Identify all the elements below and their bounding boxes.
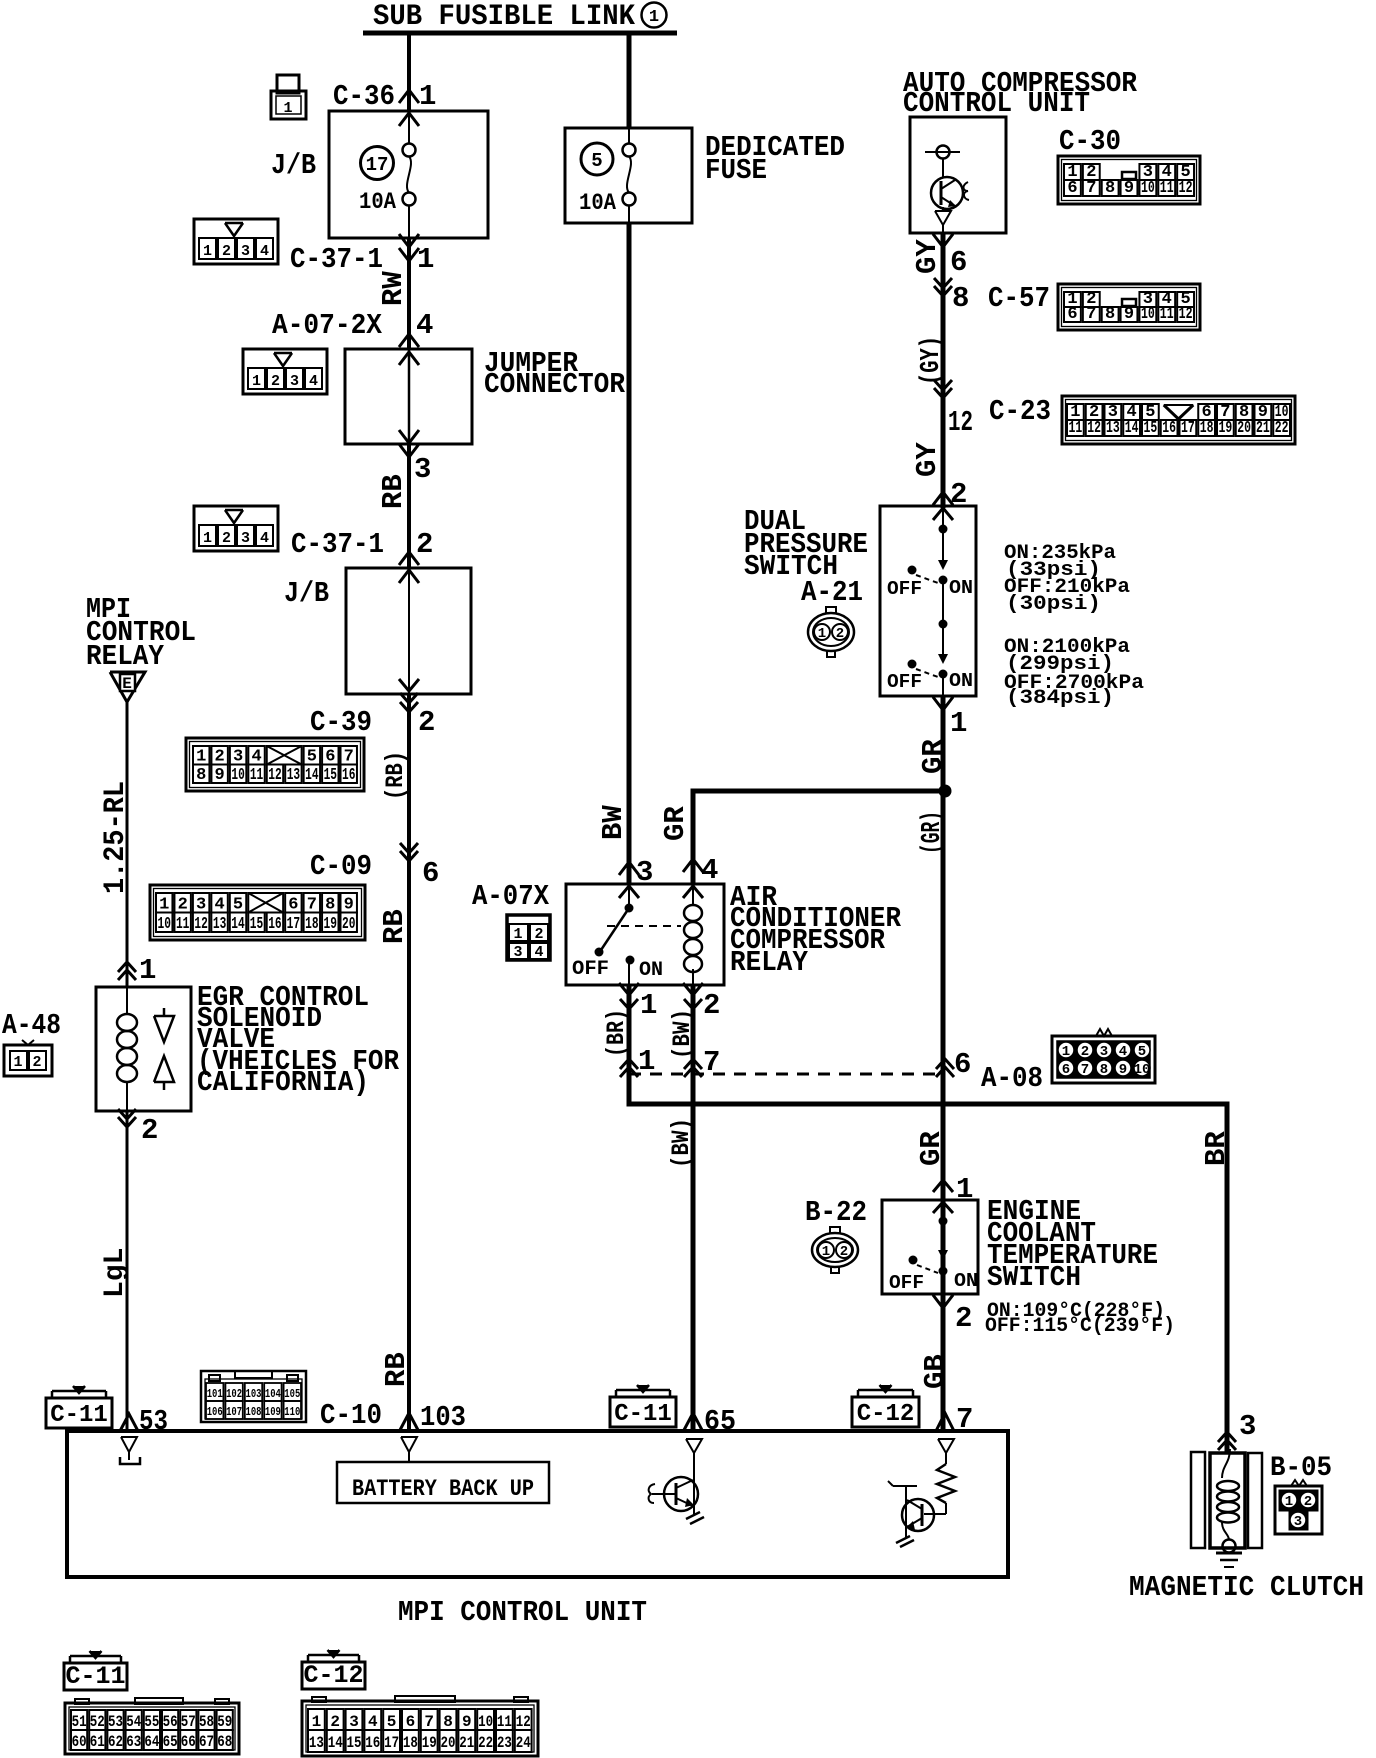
svg-text:(GY): (GY) [917, 336, 947, 385]
svg-text:61: 61 [90, 1733, 105, 1751]
svg-text:13: 13 [213, 915, 226, 934]
connector icon body [194, 506, 278, 551]
connector B-22 icon [812, 1233, 858, 1267]
connector C-09 pin grid [150, 885, 365, 940]
wire inside J/B 2 [408, 568, 410, 694]
svg-text:1: 1 [649, 8, 659, 27]
svg-text:MAGNETIC CLUTCH: MAGNETIC CLUTCH [1129, 1571, 1364, 1604]
svg-text:FUSE: FUSE [705, 154, 767, 187]
svg-text:OFF:115°C(239°F): OFF:115°C(239°F) [985, 1315, 1175, 1338]
svg-text:9: 9 [1124, 179, 1134, 198]
svg-text:18: 18 [1200, 419, 1214, 438]
connector A-21 icon [808, 613, 854, 651]
EGR control solenoid valve box A-48 [96, 987, 191, 1111]
svg-text:3: 3 [241, 243, 250, 260]
svg-text:1: 1 [818, 626, 826, 642]
svg-text:12: 12 [948, 406, 973, 439]
fuse 5 10A symbol [628, 128, 630, 144]
svg-text:(30psi): (30psi) [1006, 593, 1101, 616]
svg-text:15: 15 [347, 1734, 362, 1752]
junction block J/B box 2 [346, 568, 471, 694]
svg-text:107: 107 [226, 1405, 242, 1419]
svg-text:54: 54 [126, 1713, 141, 1731]
svg-text:58: 58 [199, 1713, 214, 1731]
svg-text:20: 20 [1237, 419, 1251, 438]
connector C-57 pin grid [1058, 284, 1200, 330]
svg-text:59: 59 [217, 1713, 232, 1731]
svg-text:C-11: C-11 [614, 1401, 672, 1428]
MPI pin 53 arrow [120, 1414, 138, 1431]
svg-text:68: 68 [217, 1733, 232, 1751]
svg-text:1: 1 [283, 100, 292, 117]
svg-text:C-11: C-11 [65, 1662, 125, 1691]
control unit output transistor symbol [925, 151, 960, 153]
connector A-07-2X pin 4 arrows [399, 334, 419, 347]
svg-text:10A: 10A [359, 189, 396, 215]
coolant switch pin 2 arrow [933, 1295, 953, 1308]
EGR pin 1 arrows [118, 962, 136, 972]
wire inside jumper connector [408, 349, 411, 444]
svg-text:20: 20 [441, 1734, 456, 1752]
svg-text:B-22: B-22 [805, 1196, 867, 1229]
svg-text:C-37-1: C-37-1 [290, 243, 383, 276]
svg-text:19: 19 [1219, 419, 1233, 438]
svg-text:18: 18 [305, 915, 318, 934]
wire (RB) run to C-09 [407, 694, 411, 1431]
connector C-11 label box bottom [64, 1663, 127, 1690]
svg-text:1: 1 [419, 80, 436, 113]
svg-text:16: 16 [342, 766, 355, 785]
ground pin 7 transistor [896, 1536, 910, 1543]
svg-text:RELAY: RELAY [730, 946, 809, 979]
ground magnetic clutch [1216, 1552, 1242, 1555]
svg-text:1: 1 [1062, 1044, 1070, 1060]
svg-text:21: 21 [1256, 419, 1270, 438]
svg-text:1: 1 [139, 954, 156, 987]
connector C-10 pin grid [201, 1371, 306, 1422]
svg-text:A-21: A-21 [801, 576, 863, 609]
svg-text:2: 2 [222, 530, 231, 547]
svg-text:8: 8 [1105, 179, 1115, 198]
svg-text:10: 10 [231, 766, 244, 785]
svg-text:LgL: LgL [100, 1248, 131, 1298]
svg-text:2: 2 [141, 1114, 158, 1147]
svg-text:4: 4 [701, 854, 718, 887]
svg-text:103: 103 [246, 1387, 262, 1401]
dual pressure switch pin 2 arrows [933, 492, 953, 505]
wire RB segment [407, 444, 411, 568]
wire LgL to MPI pin 53 [126, 1111, 129, 1431]
MPI pin 65 internal transistor [686, 1439, 702, 1453]
svg-text:12: 12 [268, 766, 281, 785]
svg-text:6: 6 [950, 246, 967, 279]
svg-text:16: 16 [365, 1734, 380, 1752]
svg-text:8: 8 [952, 282, 969, 315]
svg-text:2: 2 [418, 706, 435, 739]
auto compressor control unit box [910, 117, 1006, 233]
svg-text:6: 6 [1062, 1062, 1070, 1078]
svg-text:9: 9 [462, 1713, 472, 1731]
svg-text:9: 9 [1124, 305, 1134, 324]
pin 3 arrows [399, 430, 419, 443]
svg-text:(384psi): (384psi) [1006, 687, 1114, 710]
relay coil [692, 884, 694, 906]
svg-text:BATTERY BACK UP: BATTERY BACK UP [352, 1476, 534, 1502]
svg-text:10: 10 [158, 915, 171, 934]
relay switch blade (OFF position) [601, 908, 629, 950]
svg-text:20: 20 [342, 915, 355, 934]
connector C-12 label box bottom [302, 1662, 365, 1689]
svg-text:2: 2 [1081, 1044, 1089, 1060]
A-08 pin 1 arrows [620, 1059, 638, 1069]
coolant switch pin 1 arrows [933, 1180, 953, 1192]
svg-text:ON: ON [949, 670, 973, 692]
high pressure switch contact [942, 580, 944, 624]
MPI pin 53 internal terminal [121, 1437, 137, 1452]
relay switch contact from pin 3 [628, 884, 630, 908]
svg-text:1: 1 [822, 1244, 830, 1260]
wire sub fusible link bus [363, 31, 677, 36]
svg-text:3: 3 [513, 944, 522, 961]
svg-text:7: 7 [1081, 1062, 1089, 1078]
svg-text:3: 3 [241, 530, 250, 547]
svg-text:1: 1 [950, 707, 967, 740]
svg-text:6: 6 [422, 857, 439, 890]
wire GY from control unit [941, 233, 946, 508]
svg-text:SWITCH: SWITCH [987, 1261, 1081, 1294]
svg-text:110: 110 [284, 1405, 300, 1419]
svg-text:3: 3 [290, 373, 299, 390]
svg-text:13: 13 [287, 766, 300, 785]
svg-text:BW: BW [597, 805, 630, 840]
svg-text:2: 2 [840, 1244, 848, 1260]
connector C-23 pin 12 arrows [934, 380, 952, 390]
svg-text:103: 103 [420, 1401, 466, 1434]
svg-text:RB: RB [378, 909, 411, 944]
magnetic clutch symbol [1191, 1452, 1205, 1548]
svg-text:14: 14 [328, 1734, 343, 1752]
svg-text:E: E [122, 675, 132, 693]
svg-text:11: 11 [1160, 179, 1174, 198]
svg-text:17: 17 [287, 915, 300, 934]
connector C-36 pin 1 arrows [399, 90, 419, 103]
svg-text:65: 65 [704, 1405, 736, 1438]
svg-text:12: 12 [1179, 305, 1193, 324]
connector C-23 pin grid [1062, 396, 1295, 444]
svg-text:3: 3 [349, 1713, 359, 1731]
svg-text:63: 63 [126, 1733, 141, 1751]
svg-text:55: 55 [144, 1713, 159, 1731]
svg-text:4: 4 [309, 373, 318, 390]
svg-text:8: 8 [196, 766, 206, 785]
svg-text:C-39: C-39 [310, 706, 372, 739]
svg-text:12: 12 [1179, 179, 1193, 198]
connector C-30 pin grid [1058, 156, 1200, 204]
jumper connector box [345, 349, 472, 444]
svg-text:10A: 10A [579, 190, 616, 216]
svg-text:1: 1 [312, 1713, 322, 1731]
svg-text:OFF: OFF [889, 1272, 924, 1294]
svg-text:C-30: C-30 [1059, 125, 1121, 158]
svg-text:6: 6 [1067, 179, 1077, 198]
svg-text:17: 17 [384, 1734, 399, 1752]
svg-text:15: 15 [1144, 419, 1158, 438]
svg-text:2: 2 [836, 626, 844, 642]
svg-text:CONNECTOR: CONNECTOR [484, 368, 626, 401]
connector icon body [243, 349, 327, 394]
padlock icon [277, 75, 299, 93]
connector C-11 label box left [46, 1398, 112, 1428]
A-08 pin 7 arrows [684, 1059, 702, 1069]
connector B-05 icon [1275, 1486, 1322, 1534]
connector C-12 label box [852, 1397, 919, 1427]
relay pin 1 arrows [619, 983, 639, 995]
wire 1.25-RL [126, 702, 129, 987]
control unit pin 6 arrow [933, 234, 953, 247]
connector A-48 icon [4, 1045, 52, 1076]
svg-text:7: 7 [1086, 305, 1096, 324]
svg-text:OFF: OFF [572, 958, 609, 981]
svg-text:51: 51 [72, 1713, 87, 1731]
fuse number circle 5 [581, 143, 613, 175]
connector C-39 pin 2 arrows [399, 679, 419, 691]
connector C-39 pin grid [186, 738, 364, 791]
svg-text:6: 6 [1067, 305, 1077, 324]
dual pressure switch box A-21 [880, 506, 976, 696]
svg-text:101: 101 [207, 1387, 223, 1401]
svg-text:GB: GB [919, 1354, 952, 1389]
coolant switch OFF contact [909, 1256, 918, 1265]
wire RW segment [407, 238, 411, 349]
svg-text:7: 7 [1086, 179, 1096, 198]
ground pin 65 transistor [686, 1512, 700, 1519]
svg-text:17: 17 [1181, 419, 1195, 438]
svg-text:11: 11 [497, 1713, 512, 1731]
svg-text:15: 15 [324, 766, 337, 785]
junction block J/B box 1 [329, 111, 488, 238]
svg-text:52: 52 [90, 1713, 105, 1731]
svg-text:8: 8 [443, 1713, 453, 1731]
MPI pin 7 arrow [936, 1413, 954, 1431]
connector C-57 pin 8 arrows [934, 278, 952, 288]
svg-text:3: 3 [1294, 1514, 1302, 1530]
svg-text:C-37-1: C-37-1 [291, 528, 384, 561]
svg-text:3: 3 [1100, 1044, 1108, 1060]
svg-text:4: 4 [416, 309, 433, 342]
svg-text:RB: RB [380, 1352, 413, 1387]
svg-text:11: 11 [1069, 419, 1083, 438]
svg-text:2: 2 [271, 373, 280, 390]
connector C-12 pin grid [302, 1701, 538, 1756]
svg-text:6: 6 [954, 1048, 971, 1081]
svg-text:10: 10 [1141, 179, 1155, 198]
dedicated fuse box [565, 128, 692, 223]
dashed connector A-08 line [629, 1073, 945, 1076]
relay pin 3 arrows [619, 862, 639, 875]
wire GR relay pin4 elbow to junction [693, 791, 945, 884]
svg-text:24: 24 [516, 1734, 531, 1752]
svg-text:RW: RW [377, 271, 410, 306]
svg-text:ON: ON [639, 959, 663, 982]
svg-text:ON: ON [949, 577, 973, 599]
svg-text:7: 7 [424, 1713, 434, 1731]
svg-text:MPI CONTROL UNIT: MPI CONTROL UNIT [398, 1596, 647, 1629]
svg-text:12: 12 [1087, 419, 1101, 438]
svg-text:16: 16 [1162, 419, 1176, 438]
svg-text:4: 4 [534, 944, 543, 961]
svg-text:57: 57 [181, 1713, 196, 1731]
relay switch ON contact [626, 956, 635, 965]
wire (BR) from relay pin1 to magnetic clutch BR [629, 985, 1227, 1452]
svg-text:14: 14 [231, 915, 244, 934]
svg-text:4: 4 [260, 243, 269, 260]
svg-text:1: 1 [203, 530, 212, 547]
svg-text:14: 14 [305, 766, 318, 785]
EGR valve symbol [163, 1008, 166, 1016]
svg-text:(BW): (BW) [667, 1118, 696, 1168]
svg-text:21: 21 [459, 1734, 474, 1752]
fuse 17 10A symbol [408, 111, 410, 144]
svg-text:10: 10 [1134, 1062, 1151, 1078]
svg-text:2: 2 [1304, 1494, 1312, 1510]
wire feed to C-36 pin 1 [407, 33, 411, 111]
svg-text:1: 1 [203, 243, 212, 260]
svg-text:10: 10 [1141, 305, 1155, 324]
high pressure switch OFF contact [908, 660, 917, 669]
B-05 pin 3 arrows [1218, 1432, 1236, 1442]
svg-text:10: 10 [478, 1713, 493, 1731]
connector A-07X icon [507, 915, 550, 960]
svg-text:RELAY: RELAY [86, 640, 165, 673]
connector C-09 pin 6 arrows [400, 843, 418, 853]
svg-text:A-07X: A-07X [472, 880, 550, 913]
svg-text:108: 108 [246, 1405, 262, 1419]
MPI pin 7 internal transistor with resistor [938, 1439, 954, 1453]
svg-text:2: 2 [534, 926, 543, 943]
svg-text:104: 104 [265, 1387, 281, 1401]
svg-text:1: 1 [417, 243, 434, 276]
relay pin 2 arrows [683, 983, 703, 995]
svg-text:2: 2 [416, 528, 433, 561]
svg-text:ON: ON [954, 1270, 978, 1292]
junction node GR [939, 785, 952, 798]
svg-text:12: 12 [194, 915, 207, 934]
svg-text:2: 2 [703, 989, 720, 1022]
MPI pin 103 arrow [400, 1413, 418, 1430]
svg-text:J/B: J/B [271, 149, 316, 182]
svg-text:62: 62 [108, 1733, 123, 1751]
svg-text:2: 2 [330, 1713, 340, 1731]
svg-text:11: 11 [176, 915, 189, 934]
MPI control relay triangle symbol [110, 672, 145, 702]
svg-text:SUB FUSIBLE LINK: SUB FUSIBLE LINK [373, 0, 635, 34]
svg-text:9: 9 [1119, 1062, 1127, 1078]
svg-text:9: 9 [215, 766, 225, 785]
connector C-11 label box right [610, 1397, 676, 1427]
svg-text:3: 3 [1239, 1410, 1256, 1443]
dual pressure switch pin 1 arrow [933, 697, 953, 710]
svg-text:1: 1 [252, 373, 261, 390]
svg-text:19: 19 [324, 915, 337, 934]
svg-text:15: 15 [250, 915, 263, 934]
svg-text:A-08: A-08 [981, 1062, 1043, 1095]
svg-text:14: 14 [1125, 419, 1139, 438]
svg-text:C-09: C-09 [310, 850, 372, 883]
svg-text:60: 60 [72, 1733, 87, 1751]
svg-text:22: 22 [1275, 419, 1289, 438]
connector icon body [194, 219, 278, 264]
svg-text:1: 1 [638, 1045, 655, 1078]
connector A-08 icon [1052, 1036, 1155, 1083]
connector C-11 pin grid [65, 1703, 239, 1754]
svg-text:53: 53 [139, 1405, 168, 1438]
A-08 pin 6 arrows [936, 1059, 954, 1069]
svg-text:A-48: A-48 [2, 1009, 61, 1042]
svg-text:C-57: C-57 [988, 282, 1050, 315]
wire (BW) from relay pin2 to MPI pin 65 [691, 985, 696, 1431]
svg-text:56: 56 [163, 1713, 178, 1731]
svg-text:66: 66 [181, 1733, 196, 1751]
svg-text:23: 23 [497, 1734, 512, 1752]
svg-text:6: 6 [406, 1713, 416, 1731]
fuse number circle 17 [361, 147, 394, 180]
svg-text:109: 109 [265, 1405, 281, 1419]
MPI pin 103 internal terminal [401, 1437, 417, 1452]
EGR pin 2 arrows [118, 1109, 136, 1119]
svg-text:(RB): (RB) [381, 751, 410, 800]
svg-text:13: 13 [1106, 419, 1120, 438]
svg-text:CALIFORNIA): CALIFORNIA) [197, 1066, 369, 1099]
svg-text:5: 5 [387, 1713, 397, 1731]
engine coolant temperature switch box B-22 [882, 1200, 978, 1294]
svg-text:13: 13 [309, 1734, 324, 1752]
relay internal dashed link [607, 925, 681, 927]
svg-text:GY: GY [911, 442, 944, 477]
svg-text:B-05: B-05 [1270, 1453, 1332, 1484]
svg-text:102: 102 [226, 1387, 242, 1401]
svg-text:CONTROL UNIT: CONTROL UNIT [903, 87, 1090, 120]
svg-text:1: 1 [513, 926, 522, 943]
svg-text:2: 2 [222, 243, 231, 260]
svg-text:3: 3 [414, 453, 431, 486]
coolant switch contact [942, 1200, 944, 1221]
svg-text:GR: GR [659, 806, 692, 841]
wire feed to dedicated fuse [627, 33, 632, 128]
svg-text:65: 65 [163, 1733, 178, 1751]
svg-text:105: 105 [284, 1387, 300, 1401]
svg-text:1.25-RL: 1.25-RL [99, 781, 133, 894]
svg-text:4: 4 [1119, 1044, 1127, 1060]
svg-text:OFF: OFF [887, 671, 922, 693]
low pressure switch contact [942, 506, 944, 529]
svg-text:11: 11 [1160, 305, 1174, 324]
svg-text:OFF: OFF [887, 578, 922, 600]
svg-text:C-12: C-12 [303, 1661, 363, 1690]
svg-text:5: 5 [1138, 1044, 1146, 1060]
svg-text:8: 8 [1100, 1062, 1108, 1078]
MPI pin 65 arrow [684, 1413, 702, 1430]
svg-text:12: 12 [516, 1713, 531, 1731]
svg-text:53: 53 [108, 1713, 123, 1731]
svg-text:8: 8 [1105, 305, 1115, 324]
svg-text:64: 64 [144, 1733, 159, 1751]
svg-text:4: 4 [368, 1713, 378, 1731]
svg-text:1: 1 [640, 989, 657, 1022]
svg-text:18: 18 [403, 1734, 418, 1752]
svg-text:BR: BR [1200, 1131, 1233, 1166]
wire GR from switch to MPI pin 7 [941, 696, 946, 1431]
connector C-37-1 pin 1 arrows [399, 234, 419, 247]
